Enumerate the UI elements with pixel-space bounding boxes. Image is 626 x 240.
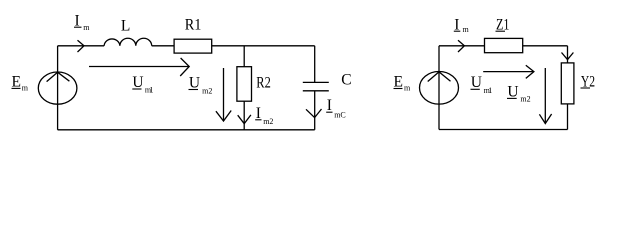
svg-text:m1: m1 — [484, 86, 493, 95]
voltage arrow U_m1 (right) — [483, 65, 534, 78]
svg-text:U: U — [471, 74, 482, 91]
resistor R2 — [237, 67, 252, 102]
EMF source E_m circle — [38, 72, 77, 104]
capacitor C plates — [303, 82, 329, 90]
svg-text:m2: m2 — [520, 95, 530, 104]
wire: bottom wire — [58, 129, 315, 131]
wire: left vertical branch (E_m branch) — [57, 46, 59, 130]
label Y2 — [581, 73, 596, 90]
current arrow into Y2 head — [562, 53, 574, 60]
wire: right vertical from corner to Y2 — [567, 46, 569, 63]
svg-text:mC: mC — [334, 110, 346, 119]
svg-text:R1: R1 — [185, 17, 202, 34]
svg-text:U: U — [132, 74, 143, 91]
label I_m (left top) — [74, 12, 90, 32]
wire: right vertical from Y2 to bottom wire — [567, 104, 569, 130]
current arrow I_m2 head — [238, 115, 251, 124]
svg-text:m2: m2 — [202, 87, 212, 96]
label E_m (left) — [12, 74, 29, 93]
label E_m (right) — [394, 74, 412, 93]
label I_m (right) — [454, 16, 470, 34]
label I_mC — [326, 97, 346, 119]
wire: right vertical from top corner to capacitor top plate — [314, 46, 316, 83]
svg-text:m: m — [463, 25, 470, 34]
svg-text:C: C — [341, 72, 351, 89]
wire: right vertical from capacitor bottom plate to bottom wire — [314, 91, 316, 130]
current arrow I_m head — [78, 40, 85, 52]
label Z1 — [496, 16, 510, 33]
svg-text:m: m — [83, 23, 90, 32]
EMF source E_m arrowhead — [47, 72, 70, 81]
current arrow I_mC head — [306, 109, 322, 118]
svg-text:m2: m2 — [263, 117, 273, 126]
wire: bottom wire of right circuit — [439, 129, 568, 131]
svg-text:U: U — [189, 74, 200, 91]
inductor L (3 humps) — [104, 38, 152, 46]
resistor R1 — [174, 39, 212, 53]
wire: R2 branch stub from top wire — [243, 46, 245, 67]
wire: left vertical branch (E_m branch, right circuit) — [438, 46, 440, 130]
svg-text:m: m — [404, 84, 411, 93]
wire: R2 branch from box to bottom wire — [243, 101, 245, 130]
admittance Y2 box — [561, 63, 574, 104]
voltage arrow U_m2 (right) — [539, 68, 551, 124]
wire: top wire of right circuit — [439, 45, 568, 47]
wire: top wire from R1 to top-right corner — [212, 45, 315, 47]
wire: top wire from inductor to R1 — [152, 45, 174, 47]
label U_m2 (left) — [189, 74, 213, 95]
label U_m2 (right) — [507, 84, 531, 104]
wire: top wire from source corner to inductor — [58, 45, 105, 47]
impedance Z1 box — [485, 38, 523, 52]
svg-text:L: L — [121, 17, 130, 34]
label U_m1 (left) — [132, 74, 153, 95]
voltage arrow U_m2 — [216, 68, 231, 121]
label U_m1 (right) — [471, 74, 493, 95]
EMF source E_m arrowhead (right) — [428, 72, 451, 82]
label I_m2 — [255, 105, 273, 126]
EMF source E_m circle (right) — [420, 72, 459, 105]
svg-text:m: m — [22, 83, 29, 92]
svg-text:R2: R2 — [256, 75, 271, 92]
current arrow I_m head (right) — [458, 40, 464, 52]
voltage arrow U_m1 — [89, 58, 189, 76]
svg-text:m1: m1 — [145, 86, 154, 95]
